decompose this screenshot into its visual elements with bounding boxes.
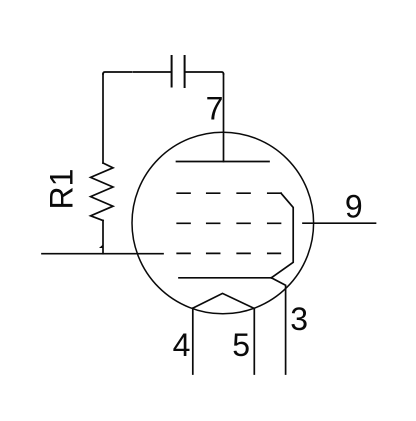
- grid row 3 (dashed): [177, 252, 280, 254]
- svg-text:3: 3: [290, 301, 308, 337]
- svg-text:4: 4: [173, 327, 191, 363]
- grid row 2 (dashed): [177, 222, 280, 224]
- svg-text:7: 7: [206, 91, 224, 127]
- grid row 1 (dashed): [177, 192, 281, 194]
- wire pin 7 lead down to anode: [223, 74, 225, 162]
- heater filament: [193, 293, 255, 308]
- resistor R1: [91, 163, 113, 221]
- wire left vertical from top corner down to resistor: [102, 74, 104, 163]
- svg-text:9: 9: [345, 189, 363, 225]
- junction tick: [99, 245, 103, 249]
- capacitor C1: [172, 56, 185, 87]
- wire pin 4 lead: [192, 308, 194, 374]
- wire pin 9 lead: [303, 222, 376, 224]
- grid side rod bracket: [271, 193, 293, 278]
- tube envelope: [132, 132, 314, 314]
- wire resistor bottom to grid node: [102, 221, 104, 254]
- wire pin 5 lead: [253, 308, 255, 374]
- svg-text:R1: R1: [44, 169, 80, 210]
- wire cathode to pin 3 lead: [271, 278, 285, 374]
- wire top left horizontal from corner to capacitor: [103, 72, 171, 74]
- wire grid lead left: [42, 253, 163, 255]
- anode plate: [177, 161, 270, 163]
- svg-text:5: 5: [232, 327, 250, 363]
- wire from capacitor right plate to pin 7 corner: [185, 72, 224, 74]
- cathode: [179, 277, 271, 279]
